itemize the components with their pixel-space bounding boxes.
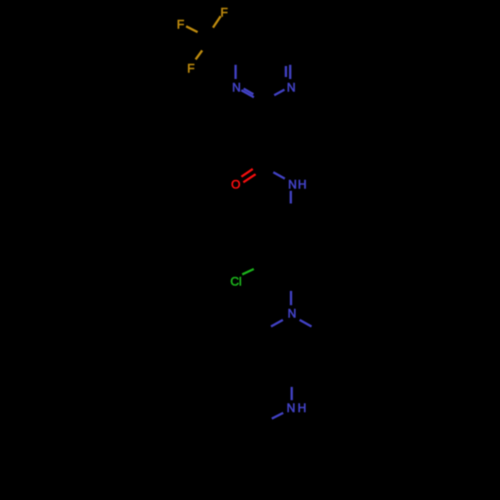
bond C-F2 (gold half) [186, 26, 198, 32]
bond C=O amide main line (red half) [243, 174, 255, 182]
bond Namide-C1 benzene (blue half) [290, 191, 292, 204]
bond C4benzene-Npip (blue half) [290, 291, 292, 305]
svg-text:F: F [187, 62, 194, 76]
bond C=O amide second line (red) [241, 169, 252, 177]
bond Npip-C2pip (blue half) [271, 320, 283, 327]
svg-text:N: N [232, 81, 241, 95]
bond N3-C2 pyrimidine (blue half) [274, 90, 284, 96]
svg-text:F: F [221, 6, 228, 20]
bond N3=C6 pyrimidine inner line (blue) [285, 66, 287, 77]
svg-text:N: N [288, 306, 297, 320]
bond N1-C4 pyrimidine (blue half) [234, 65, 236, 79]
svg-text:F: F [177, 18, 184, 32]
bond Cl-C3 benzene (green half) [242, 269, 254, 274]
svg-text:N: N [288, 177, 297, 191]
svg-text:H: H [298, 401, 307, 415]
bond NH-CH3 methyl (blue half) [272, 413, 283, 419]
svg-text:H: H [298, 177, 307, 191]
bond Npip-C6pip (blue half) [300, 320, 312, 327]
svg-text:N: N [287, 80, 296, 94]
bond N1=C2 pyrimidine main line (blue half) [241, 90, 254, 97]
bond C4pip-NH (blue half) [291, 387, 293, 400]
svg-text:N: N [287, 401, 296, 415]
svg-text:O: O [231, 178, 240, 192]
bond C(O)-N amide (blue half) [273, 172, 285, 178]
bond N1=C2 pyrimidine inner line (blue) [244, 89, 254, 95]
bond C-F1 (gold half) [213, 16, 221, 28]
bond C-F3 (gold half) [196, 50, 203, 59]
bond N3=C6 pyrimidine main line (blue half) [289, 65, 291, 79]
svg-text:Cl: Cl [230, 274, 241, 288]
